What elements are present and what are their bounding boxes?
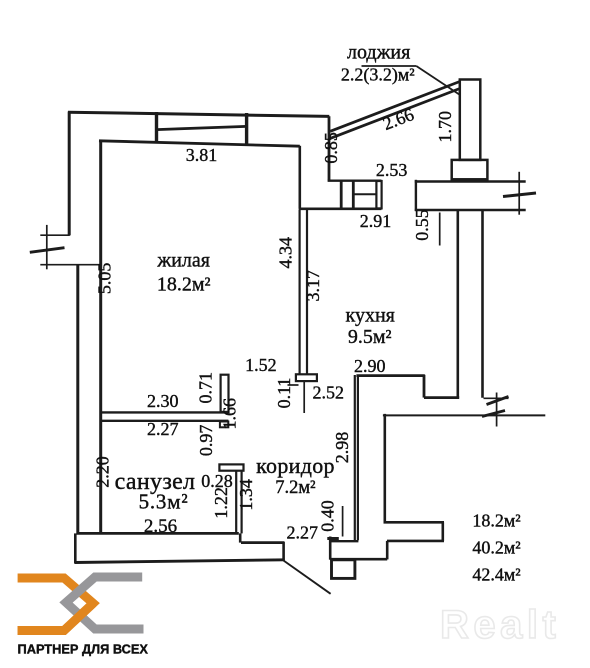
partition living-kitchen right line (306, 210, 308, 374)
svg-text:42.4м²: 42.4м² (472, 565, 520, 585)
svg-text:1.34: 1.34 (236, 479, 256, 511)
dim underline 0.55 (439, 213, 441, 246)
pier footing (452, 160, 488, 179)
svg-text:0.71: 0.71 (195, 372, 215, 404)
wire top outer wall (68, 112, 329, 116)
loggia window divider (352, 181, 355, 209)
entrance step square (332, 560, 355, 579)
svg-text:Realt: Realt (440, 603, 560, 647)
wall right outer (481, 211, 484, 398)
svg-text:5.3м²: 5.3м² (139, 490, 189, 514)
corridor floor line (241, 541, 285, 544)
logo orange lower segment redraw for weave (18, 603, 94, 630)
svg-text:2.20: 2.20 (92, 456, 112, 488)
small dash near 0.11 (288, 384, 299, 386)
bathroom top wall upper line (100, 411, 228, 413)
diagonal leader at entrance (284, 561, 331, 594)
svg-text:40.2м²: 40.2м² (472, 538, 520, 558)
corridor right wall left line (354, 375, 356, 540)
svg-text:2.91: 2.91 (360, 211, 392, 231)
logo orange ribbon (18, 578, 94, 631)
wall kitchen top (299, 208, 382, 211)
slab left edge (415, 180, 417, 211)
loggia railing upper line (330, 82, 460, 132)
svg-text:4.34: 4.34 (275, 237, 295, 269)
svg-text:ПАРТНЕР ДЛЯ ВСЕХ: ПАРТНЕР ДЛЯ ВСЕХ (18, 642, 149, 657)
loggia window post (376, 181, 381, 208)
wall right inner (456, 211, 459, 398)
svg-text:2.30: 2.30 (147, 391, 179, 411)
svg-text:2.52: 2.52 (312, 383, 344, 403)
svg-text:жилая: жилая (156, 250, 210, 272)
tick right upper (487, 397, 509, 405)
svg-text:1.70: 1.70 (435, 111, 455, 143)
pier column (460, 80, 481, 160)
wall left outer lower (76, 265, 79, 535)
wire top inner wall (99, 141, 300, 146)
thick dash 0.40 (327, 537, 339, 540)
svg-text:кухня: кухня (346, 305, 395, 327)
loggia railing lower line (330, 89, 460, 139)
corridor right wall right line (357, 375, 359, 540)
svg-text:2.53: 2.53 (376, 160, 408, 180)
bathroom niche top bar (219, 464, 243, 470)
entry outer line (330, 558, 387, 561)
svg-text:2.2(3.2)м²: 2.2(3.2)м² (341, 65, 415, 86)
entry left vertical (329, 537, 332, 560)
slab top line (415, 180, 526, 182)
wall kitchen niche left (298, 146, 301, 209)
window W1 left jamb (155, 112, 158, 144)
dimension line left (46, 225, 48, 269)
svg-text:2.27: 2.27 (286, 523, 318, 543)
bottom wall bottom line (75, 560, 285, 563)
leader overline from loggia label (362, 65, 417, 67)
wall left outer upper (68, 112, 71, 236)
svg-text:0.11: 0.11 (274, 378, 294, 409)
dim extension 0.40 (342, 506, 344, 537)
svg-text:18.2м²: 18.2м² (157, 274, 211, 296)
wall left inner (99, 140, 102, 535)
svg-text:0.55: 0.55 (412, 209, 432, 241)
bathroom right wall right line (241, 471, 243, 534)
loggia window left jamb (340, 181, 343, 209)
wall kitchen bottom (356, 374, 424, 377)
slab bottom line (415, 209, 526, 211)
svg-text:3.17: 3.17 (303, 270, 323, 302)
svg-text:коридор: коридор (256, 453, 335, 478)
svg-text:1.22: 1.22 (211, 487, 231, 519)
svg-text:0.40: 0.40 (318, 500, 338, 532)
extension line left upper (40, 234, 70, 236)
bathroom floor line (77, 532, 239, 535)
window W1 right jamb (245, 113, 248, 145)
shaft bottom upper line (384, 521, 445, 524)
partition end cap (296, 374, 317, 381)
svg-text:18.2м²: 18.2м² (472, 511, 520, 531)
partition living-kitchen left line (299, 210, 301, 374)
bottom wall left end (74, 533, 77, 563)
loggia window top line (328, 179, 382, 181)
svg-text:2.27: 2.27 (147, 419, 179, 439)
tick right lower (482, 411, 505, 417)
svg-text:2.56: 2.56 (144, 516, 177, 537)
extension line left lower (40, 264, 100, 266)
svg-text:5.05: 5.05 (94, 263, 114, 295)
window W1 middle line (157, 126, 247, 129)
shaft left wall (383, 414, 386, 522)
corridor bottom connector (329, 540, 358, 542)
svg-text:7.2м²: 7.2м² (275, 478, 316, 498)
entry recess top line (387, 540, 444, 543)
entry recess left vertical (386, 541, 389, 560)
wall stub 0.71 (221, 375, 229, 412)
svg-text:0.97: 0.97 (196, 425, 216, 457)
svg-text:1.52: 1.52 (245, 355, 277, 375)
bottom wall right end (282, 542, 285, 561)
wall kitchen bottom step horizontal (424, 396, 459, 399)
wall stub lower cap (220, 422, 228, 428)
svg-text:9.5м²: 9.5м² (348, 326, 392, 348)
loggia window middle line (353, 193, 376, 195)
dimension extension below cap (303, 382, 305, 414)
svg-text:лоджия: лоджия (347, 42, 410, 64)
svg-text:1.66: 1.66 (220, 398, 240, 430)
shaft right step (441, 522, 444, 541)
svg-text:0.85: 0.85 (321, 132, 341, 164)
wall kitchen bottom step vertical (423, 375, 426, 398)
logo gray ribbon (66, 577, 144, 629)
long extension line right (383, 414, 545, 416)
svg-text:3.81: 3.81 (186, 145, 218, 165)
svg-text:2.98: 2.98 (332, 432, 352, 464)
svg-text:2.90: 2.90 (354, 356, 386, 376)
wall right of window to corner (328, 116, 331, 180)
slab right dimension line (518, 172, 520, 215)
tick at slab right (503, 193, 536, 197)
dimension line right (496, 393, 498, 427)
leader diagonal to loggia (416, 66, 459, 95)
extension line right lower (484, 397, 509, 399)
tick left (30, 248, 65, 253)
bathroom right wall left line (235, 471, 237, 534)
floor step vertical (239, 533, 242, 542)
bathroom top wall lower line (100, 420, 228, 422)
